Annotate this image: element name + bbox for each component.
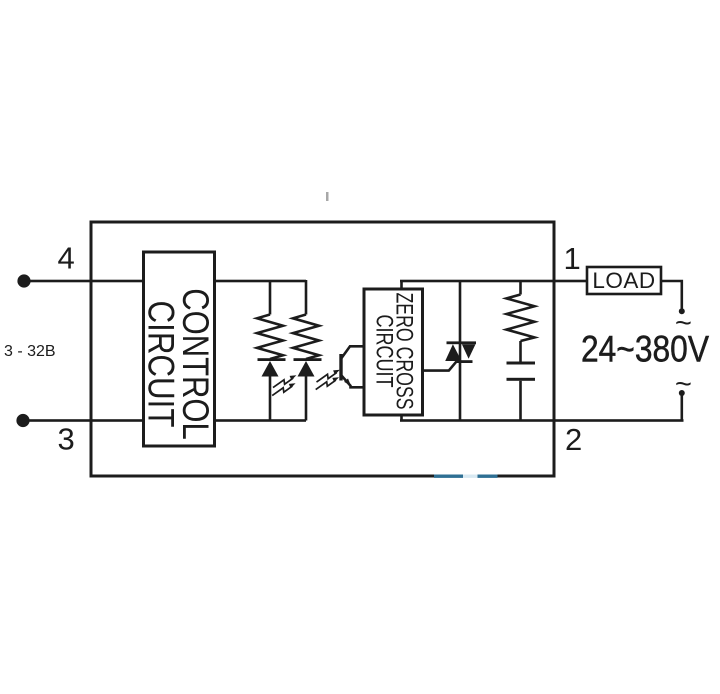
gate lead <box>423 361 457 370</box>
base bar <box>339 354 342 381</box>
control circuit box U1 <box>144 252 215 446</box>
svg-text:2: 2 <box>565 422 582 457</box>
wire terminal3 to control circuit <box>23 419 145 422</box>
LOAD box <box>587 267 661 294</box>
snubber resistor R3 <box>507 280 535 362</box>
bottom bar <box>457 360 473 363</box>
emitter arrowhead <box>344 379 351 386</box>
vertical through wire <box>459 280 462 421</box>
svg-text:3 - 32B: 3 - 32B <box>4 343 56 360</box>
stub zero-cross top to rail <box>400 280 403 290</box>
LED D2 <box>294 358 322 376</box>
resistor R2 zigzag <box>293 315 319 360</box>
LED D1 <box>258 358 286 376</box>
left triangle (up) <box>445 344 461 361</box>
wire capacitor bottom <box>519 381 522 421</box>
terminal 4 dot <box>17 274 30 287</box>
zero cross circuit box U2 <box>364 289 423 415</box>
light arrows set 2 toward phototransistor <box>316 373 337 390</box>
svg-text:24~380V: 24~380V <box>581 329 709 370</box>
svg-text:CIRCUIT: CIRCUIT <box>370 315 397 388</box>
wire branch2 top <box>305 280 308 315</box>
AC terminal dot bottom <box>679 390 685 396</box>
resistor R1 branch (left LED branch) <box>257 280 283 421</box>
wire terminal4 to control circuit <box>24 280 145 283</box>
terminal 3 dot <box>16 414 29 427</box>
wire resistor to capacitor <box>519 341 522 362</box>
wire top rail right segment <box>400 280 661 283</box>
wire branch1 bottom <box>269 375 272 421</box>
svg-text:CIRCUIT: CIRCUIT <box>140 301 181 428</box>
watermark teal segment on bottom border <box>434 475 498 478</box>
collector lead <box>341 346 364 359</box>
wire top rail left segment <box>214 280 306 283</box>
wire snubber top <box>519 280 522 295</box>
top bar <box>447 341 477 344</box>
right triangle (down) <box>462 344 476 359</box>
phototransistor Q1 <box>341 346 364 387</box>
svg-text:1: 1 <box>564 241 581 276</box>
light emission arrows from LEDs set 1 <box>272 378 293 396</box>
faint gray tick above box <box>326 192 329 201</box>
wire branch1 top <box>269 280 272 315</box>
wire bottom rail right segment <box>400 419 684 422</box>
triac Q2 <box>423 280 476 421</box>
control circuit label <box>140 288 215 440</box>
svg-text:LOAD: LOAD <box>592 268 655 293</box>
wire bottom rail left segment <box>214 419 306 422</box>
svg-text:4: 4 <box>58 241 75 276</box>
resistor R2 branch (right LED branch) <box>293 280 319 421</box>
stub zero-cross bottom to rail <box>400 414 403 421</box>
AC terminal dot top <box>679 308 685 314</box>
wire bottom terminal down to rail <box>681 393 684 421</box>
SSR outline box <box>91 222 554 476</box>
emitter lead <box>341 375 364 387</box>
resistor R3 zigzag <box>507 295 535 342</box>
resistor R1 zigzag <box>257 315 283 360</box>
svg-text:~: ~ <box>675 369 692 401</box>
zero cross circuit label <box>370 293 417 410</box>
svg-text:3: 3 <box>58 422 75 457</box>
capacitor C1 <box>507 362 536 421</box>
wire branch2 bottom <box>305 375 308 421</box>
wire LOAD to top terminal <box>661 281 682 309</box>
